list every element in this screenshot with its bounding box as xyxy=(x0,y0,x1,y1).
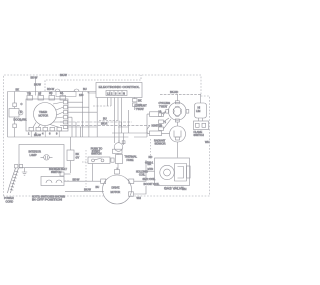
drive motor M2 circle xyxy=(103,175,132,204)
igniter element tip xyxy=(176,137,180,140)
wire console harness drop xyxy=(35,77,37,96)
dashed bulkhead line mid xyxy=(85,150,87,187)
lamp DS1 symbol xyxy=(44,155,50,161)
igniter resistor leads xyxy=(147,111,166,125)
svg-text:4: 4 xyxy=(42,132,44,136)
lamp leads xyxy=(41,156,53,160)
svg-text:CYCLING: CYCLING xyxy=(159,101,171,105)
blower terminal left xyxy=(166,110,169,114)
radiant sensor leads xyxy=(147,125,170,133)
push-to-start contact right xyxy=(101,159,104,162)
svg-text:T'STAT: T'STAT xyxy=(136,107,145,111)
timer bottom terminal stubs xyxy=(31,131,59,137)
timer right terminal 4 xyxy=(64,116,68,119)
svg-text:EXHAUST: EXHAUST xyxy=(135,104,148,108)
terminal LO xyxy=(159,127,164,130)
timer bottom terminal 9 xyxy=(57,127,62,131)
motor left wire xyxy=(64,180,101,182)
svg-text:LIM: LIM xyxy=(196,109,200,113)
svg-text:TIMER: TIMER xyxy=(39,110,47,114)
wire neutral bottom run xyxy=(8,125,148,137)
svg-text:INTERIOR: INTERIOR xyxy=(29,150,42,154)
ground xyxy=(22,168,27,175)
belt switch dashed stub xyxy=(64,180,70,182)
svg-text:3: 3 xyxy=(115,92,117,96)
belt switch contacts xyxy=(46,180,62,183)
sensor bar wire B xyxy=(99,120,118,122)
svg-text:LAMP: LAMP xyxy=(30,153,37,157)
svg-text:6: 6 xyxy=(49,132,51,136)
gas valve bracket xyxy=(175,164,187,182)
door switch plunger xyxy=(19,111,23,115)
timer right terminal 1 xyxy=(64,101,68,104)
timer right terminal 3 xyxy=(64,111,68,114)
svg-text:CORD: CORD xyxy=(6,200,14,204)
wire door switch branch xyxy=(14,92,16,138)
timer terminal TM xyxy=(27,96,33,101)
svg-text:IGNITER: IGNITER xyxy=(152,124,163,128)
timer bottom terminal 4 xyxy=(43,127,48,131)
door switch terminal bottom xyxy=(13,124,17,128)
cycling thermostat lead wires xyxy=(119,140,124,145)
timer terminal 2F xyxy=(38,96,44,101)
svg-text:BK-W: BK-W xyxy=(34,83,41,87)
terminal HI xyxy=(159,113,164,116)
blower thermostat lobes xyxy=(173,106,181,116)
svg-text:T'STAT: T'STAT xyxy=(159,105,168,109)
gas valve coil circles xyxy=(160,165,174,179)
push-to-start blade xyxy=(94,158,101,160)
svg-text:2D: 2D xyxy=(49,91,52,95)
cycling thermostat base xyxy=(113,149,123,153)
flame switch contact 2 xyxy=(202,123,206,127)
svg-text:1: 1 xyxy=(28,132,30,136)
svg-text:RD: RD xyxy=(149,155,153,159)
timer motor M1 circle xyxy=(34,103,57,126)
hi-limit thermostat box xyxy=(195,103,207,118)
fuse link F1 xyxy=(56,92,76,97)
svg-text:HI: HI xyxy=(159,110,162,114)
blower top stub wire xyxy=(176,94,178,100)
control terminal strip dividers xyxy=(110,91,122,96)
thermal fuse leads xyxy=(117,153,118,169)
svg-text:2F: 2F xyxy=(38,92,41,96)
wire BK-RD dash-dot xyxy=(160,93,201,95)
terminal MED xyxy=(159,120,164,123)
terminal mid-left wire xyxy=(64,173,71,175)
igniter E1 circle xyxy=(170,126,186,142)
svg-text:FUSE: FUSE xyxy=(127,158,134,162)
svg-text:TM: TM xyxy=(27,92,31,96)
svg-text:BOOST COIL: BOOST COIL xyxy=(144,182,160,186)
motor top stub wire xyxy=(116,168,118,170)
wire L1 left drop xyxy=(7,92,9,138)
gas valve coil lead wires xyxy=(146,172,155,184)
blower terminal bottom xyxy=(175,119,179,122)
svg-text:C: C xyxy=(21,102,23,106)
power cord xyxy=(8,168,19,193)
svg-text:6A: 6A xyxy=(60,91,63,95)
push-to-start bottom wire xyxy=(92,164,94,182)
control terminal strip xyxy=(106,91,127,96)
blower thermostat inner circle xyxy=(173,107,181,115)
timer bottom terminal 1 xyxy=(29,127,34,131)
blower terminal top xyxy=(175,101,179,104)
gas valve right tab xyxy=(187,166,191,178)
wire hop 1 xyxy=(55,89,60,91)
terminal link wires xyxy=(164,111,172,128)
timer right terminal 5 xyxy=(64,121,68,124)
svg-text:BK-W: BK-W xyxy=(73,177,80,181)
console dashed boundary xyxy=(45,75,141,91)
resistor R3 vertical xyxy=(67,150,74,161)
push-to-start left dashed stub xyxy=(82,161,88,163)
push-to-start side tab xyxy=(111,158,114,162)
motor bottom-left wire xyxy=(65,190,104,192)
svg-text:BK: BK xyxy=(16,87,20,91)
timer cam contact fan lines xyxy=(33,102,64,127)
svg-text:BK-W: BK-W xyxy=(60,73,67,77)
svg-text:WH: WH xyxy=(182,187,186,191)
timer right stub wires xyxy=(68,102,98,137)
svg-text:DRIVE: DRIVE xyxy=(112,185,120,189)
timer bottom terminal 6 xyxy=(50,127,55,131)
blower terminal right xyxy=(186,110,189,114)
thermal fuse F2 xyxy=(116,155,123,164)
push-to-start contact left xyxy=(92,159,95,162)
svg-text:BU: BU xyxy=(103,117,107,121)
door switch terminal top xyxy=(13,103,17,107)
control left stub wire xyxy=(88,92,96,94)
svg-text:9: 9 xyxy=(56,132,58,136)
middle vertical wires xyxy=(83,92,98,138)
timer terminal 2D xyxy=(49,96,55,101)
motor terminal left xyxy=(101,179,106,184)
svg-text:WH: WH xyxy=(137,196,141,200)
svg-text:BK-R: BK-R xyxy=(101,122,107,126)
gas valve coil inner circle xyxy=(164,169,171,176)
svg-text:N: N xyxy=(123,92,125,96)
timer top terminal stubs xyxy=(30,92,63,96)
hi-limit top wire xyxy=(200,94,202,103)
control output wires xyxy=(108,98,124,143)
control right terminal stubs xyxy=(134,98,136,111)
svg-text:SWITCH: SWITCH xyxy=(194,133,204,137)
push-to-start switch S2 box xyxy=(88,157,110,164)
svg-text:BK-W: BK-W xyxy=(31,75,38,79)
svg-text:COIL: COIL xyxy=(139,173,146,177)
svg-text:BK-W: BK-W xyxy=(84,188,91,192)
svg-text:SENSOR: SENSOR xyxy=(155,142,166,146)
radiant sensor R2 xyxy=(150,131,162,136)
svg-text:B: B xyxy=(20,110,22,114)
svg-text:POWER: POWER xyxy=(4,196,14,200)
timer terminal 6A xyxy=(60,96,66,101)
svg-text:RD-W: RD-W xyxy=(47,87,55,91)
cabinet dashed border xyxy=(4,75,210,196)
dashed bulkhead line right xyxy=(150,139,152,156)
svg-text:BU: BU xyxy=(83,87,87,91)
cycling thermostat T1 circle xyxy=(114,143,123,152)
motor terminal right xyxy=(129,179,134,184)
svg-text:ELECTRONIC CONTROL: ELECTRONIC CONTROL xyxy=(99,85,140,89)
svg-text:GY: GY xyxy=(76,155,80,159)
electronic control U1 box xyxy=(96,83,142,98)
svg-text:BK: BK xyxy=(76,152,80,156)
terminal mid-left xyxy=(60,172,64,176)
dash-dot wire long B xyxy=(60,124,150,126)
wire L1 top run xyxy=(8,91,97,93)
svg-text:150: 150 xyxy=(79,93,84,97)
svg-text:A: A xyxy=(20,118,22,122)
timer right terminal 6 xyxy=(64,125,68,128)
motor terminal top xyxy=(115,170,120,175)
motor right wires xyxy=(134,160,147,194)
flame switch contact 1 xyxy=(196,123,200,127)
igniter wires xyxy=(176,122,178,158)
mid lower wires xyxy=(112,110,148,143)
wire hop 2 xyxy=(74,89,79,91)
timer assembly box xyxy=(26,99,68,131)
cord terminal 2 xyxy=(19,165,22,168)
control right terminal OR xyxy=(133,103,138,106)
interior lamp box xyxy=(19,145,64,168)
svg-text:BK: BK xyxy=(138,99,142,103)
svg-text:2: 2 xyxy=(111,92,113,96)
svg-text:IN OFF POSITION: IN OFF POSITION xyxy=(32,198,62,202)
svg-text:WH: WH xyxy=(205,140,209,144)
igniter element bracket xyxy=(174,131,181,138)
timer bottom terminal 3 xyxy=(36,127,41,131)
door switch S1 body xyxy=(9,109,19,118)
svg-text:THERMAL: THERMAL xyxy=(125,155,138,159)
svg-text:4: 4 xyxy=(119,92,121,96)
flame switch box xyxy=(194,121,209,130)
svg-text:MOTOR: MOTOR xyxy=(39,114,49,118)
hi-limit bottom pins xyxy=(199,118,203,121)
svg-text:BU: BU xyxy=(96,185,100,189)
igniter resistor R1 xyxy=(150,112,162,117)
svg-text:BK-RD: BK-RD xyxy=(170,90,178,94)
svg-text:SWITCH: SWITCH xyxy=(91,152,101,156)
svg-text:MOTOR: MOTOR xyxy=(111,190,121,194)
control right terminal BK xyxy=(133,99,138,102)
svg-text:MTR: MTR xyxy=(148,167,154,171)
svg-text:BR: BR xyxy=(148,162,152,166)
resistor R3 leads xyxy=(70,137,72,173)
gas valve assembly box xyxy=(155,158,190,186)
blower thermostat B1 outer circle xyxy=(168,102,186,120)
belt switch S3 box xyxy=(41,177,64,186)
cycling thermostat terminal xyxy=(122,141,125,144)
cord terminal 1 xyxy=(15,165,18,168)
sensor bar wire A xyxy=(93,105,111,107)
dash-dot wire long A xyxy=(60,121,132,123)
motor terminal bottom xyxy=(129,192,134,197)
timer right terminal 2 xyxy=(64,106,68,109)
